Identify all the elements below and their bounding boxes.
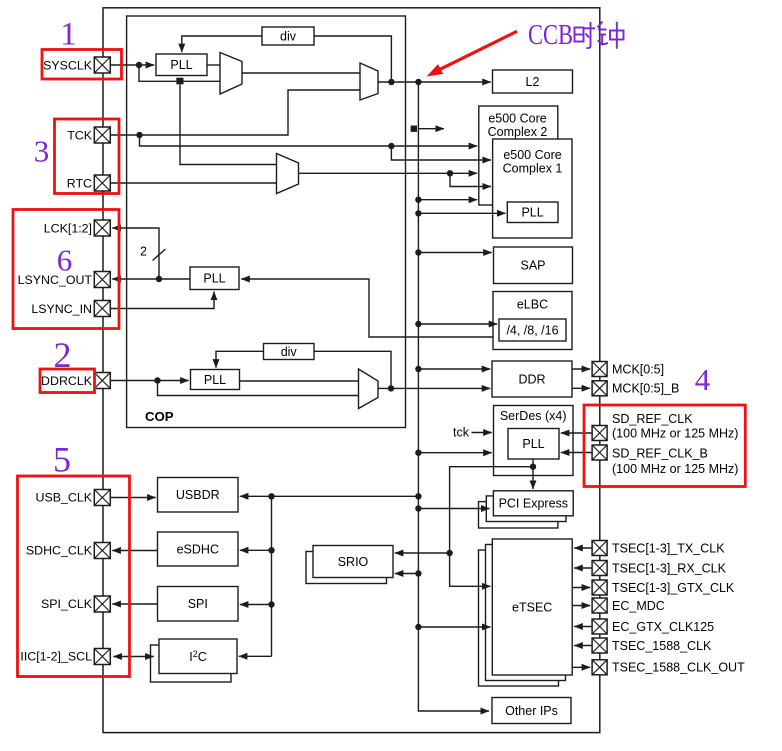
svg-text:PLL: PLL bbox=[203, 272, 225, 286]
pad DDRCLK bbox=[94, 373, 110, 389]
pad SYSCLK bbox=[94, 57, 110, 73]
pad EC_GTX_CLK125 bbox=[592, 619, 607, 634]
node SRIO/eTSEC junction bbox=[446, 550, 452, 556]
wire RTC pad to mux M3 lower input bbox=[111, 182, 277, 184]
wire SD_REF_CLK pad to SerDes PLL bbox=[561, 432, 592, 434]
wire tck to SerDes bbox=[472, 432, 492, 434]
block e500 Core Complex 1 bbox=[493, 139, 572, 238]
pad TSEC[1-3]_RX_CLK bbox=[592, 561, 607, 576]
svg-text:PLL: PLL bbox=[522, 437, 544, 451]
svg-text:CCB: CCB bbox=[528, 20, 573, 51]
svg-text:e500 Core: e500 Core bbox=[503, 148, 561, 162]
block USBDR bbox=[158, 478, 239, 513]
svg-text:Complex 2: Complex 2 bbox=[488, 125, 548, 139]
wire square tap to mux M1 lower input bbox=[184, 80, 221, 82]
svg-text:LSYNC_IN: LSYNC_IN bbox=[31, 302, 92, 316]
svg-text:TSEC[1-3]_GTX_CLK: TSEC[1-3]_GTX_CLK bbox=[612, 581, 735, 595]
wire square tap down to mux M3 upper input bbox=[180, 84, 277, 164]
wire bus to SRIO bbox=[395, 573, 419, 575]
annotation box 3 (TCK/RTC) bbox=[55, 119, 120, 194]
block eTSEC (stacked) bbox=[479, 550, 559, 686]
wire arrow into USBDR right edge bbox=[240, 495, 272, 497]
wire bus to USBDR bbox=[272, 495, 419, 497]
wire DDR to MCK[0:5] pad bbox=[572, 368, 590, 370]
node LSYNC_OUT junction bbox=[156, 276, 162, 282]
svg-text:EC_MDC: EC_MDC bbox=[612, 599, 665, 613]
node bus to eTSEC bbox=[415, 624, 421, 630]
PLL U2 (LBC PLL) bbox=[190, 267, 239, 290]
pad MCK[0:5] bbox=[592, 362, 607, 377]
wire div feedback: CCB node up to div right bbox=[314, 36, 391, 82]
annotation box 4 (SD_REF_CLK) bbox=[584, 405, 745, 487]
pad TSEC_1588_CLK bbox=[592, 638, 607, 653]
pad SD_REF_CLK bbox=[592, 426, 607, 441]
wire eLBC feedback to PLL U2 bbox=[241, 279, 493, 337]
node bus to core PLL bbox=[415, 210, 421, 216]
svg-text:IIC[1-2]_SCL: IIC[1-2]_SCL bbox=[20, 650, 92, 664]
wire bus to eLBC divider bbox=[418, 323, 497, 325]
tap square S1 bbox=[176, 78, 183, 85]
block SRIO (stacked) bbox=[306, 552, 387, 584]
svg-text:DDRCLK: DDRCLK bbox=[41, 374, 93, 388]
block SAP bbox=[494, 247, 573, 284]
node bus to Complex2 bbox=[415, 197, 421, 203]
wire bus to e500 Core Complex 2 lower bbox=[418, 199, 477, 201]
annotation box 1 (SYSCLK) bbox=[42, 50, 122, 80]
divider /4,/8,/16 bbox=[499, 319, 566, 341]
wire div out to PLL U1 top (feedback) bbox=[182, 36, 262, 52]
svg-text:TSEC[1-3]_TX_CLK: TSEC[1-3]_TX_CLK bbox=[612, 541, 725, 555]
bus width slash bbox=[153, 249, 166, 261]
wire distribution down to eSDHC bbox=[271, 496, 273, 550]
node SYSCLK junction bbox=[136, 62, 142, 68]
svg-text:/4, /8, /16: /4, /8, /16 bbox=[506, 323, 558, 337]
svg-text:LSYNC_OUT: LSYNC_OUT bbox=[18, 273, 93, 287]
wire arrow into eSDHC right edge bbox=[240, 549, 272, 551]
svg-text:SAP: SAP bbox=[520, 259, 545, 273]
svg-text:COP: COP bbox=[145, 409, 174, 424]
node SPI junction bbox=[268, 601, 274, 607]
wire SYSCLK bypass to square tap bbox=[139, 65, 176, 81]
wire SerDes PLL out down to PCI Express bbox=[532, 459, 534, 489]
pad TSEC_1588_CLK_OUT bbox=[592, 660, 607, 675]
block L2 bbox=[493, 70, 573, 93]
annotation glyph shi (时) bbox=[575, 22, 596, 48]
annotation box 5 (USB/SDHC/SPI/IIC) bbox=[18, 476, 130, 677]
svg-text:LCK[1:2]: LCK[1:2] bbox=[44, 222, 92, 236]
wire DDRCLK pad to PLL U3 bbox=[111, 380, 189, 382]
pad TSEC[1-3]_TX_CLK bbox=[592, 541, 607, 556]
pad TCK bbox=[94, 127, 110, 143]
PLL U4 (core complex PLL) bbox=[507, 202, 558, 223]
wire PLL U1 out to mux M1 upper input bbox=[207, 64, 220, 66]
block DDR bbox=[492, 361, 572, 397]
svg-text:3: 3 bbox=[34, 134, 50, 169]
svg-text:PLL: PLL bbox=[170, 58, 192, 72]
pad IIC[1-2]_SCL bbox=[94, 649, 110, 665]
wire SPI to SPI_CLK pad bbox=[112, 603, 157, 605]
node CCB clock bbox=[415, 79, 421, 85]
mux M1 (PLL bypass mux) bbox=[220, 53, 242, 95]
svg-text:I2C: I2C bbox=[189, 649, 207, 664]
wire distribution down to SPI bbox=[271, 550, 273, 604]
wire TCK pad to mux M2 lower input bbox=[111, 90, 361, 135]
wire eTSEC to EC_MDC pad bbox=[572, 605, 590, 607]
svg-text:SYSCLK: SYSCLK bbox=[43, 59, 93, 73]
wire LSYNC_IN pad to PLL U2 bottom bbox=[111, 292, 215, 309]
svg-text:EC_GTX_CLK125: EC_GTX_CLK125 bbox=[612, 620, 714, 634]
wire eTSEC to TSEC[1-3]_GTX_CLK pad bbox=[572, 587, 590, 589]
block Other IPs bbox=[492, 698, 571, 724]
wire PLL U2 out to LSYNC_OUT pad bbox=[112, 278, 190, 280]
block SerDes (x4) bbox=[494, 406, 574, 476]
wire distribution down to I2C bbox=[271, 605, 273, 657]
wire branch to LCK pad bbox=[112, 228, 159, 279]
svg-text:6: 6 bbox=[57, 243, 73, 278]
pad LSYNC_IN bbox=[94, 301, 110, 317]
node DDRCLK junction bbox=[154, 377, 160, 383]
node bus to USB line bbox=[415, 493, 421, 499]
PLL U3 (DDR PLL) bbox=[191, 370, 240, 390]
svg-text:TSEC_1588_CLK_OUT: TSEC_1588_CLK_OUT bbox=[612, 661, 745, 675]
wire USB_CLK pad to USBDR bbox=[111, 497, 156, 499]
wire bus to DDR bbox=[418, 368, 490, 370]
wire TCK branch to e500 Core Complex 2 bbox=[140, 135, 478, 146]
node mux M4 output bbox=[388, 385, 394, 391]
wire DDR to MCK[0:5]_B pad bbox=[572, 387, 590, 389]
pad MCK[0:5]_B bbox=[592, 381, 607, 396]
wire PLL U3 out to mux M4 upper input bbox=[240, 380, 359, 382]
COP block outline bbox=[127, 16, 406, 428]
wire bus to eTSEC bbox=[418, 626, 490, 628]
wire arrow into SPI right edge bbox=[240, 604, 272, 606]
wire TSEC[1-3]_TX_CLK pad to eTSEC bbox=[574, 547, 592, 549]
wire I2C to IIC pad (bidirectional) bbox=[113, 656, 153, 658]
wire CCB vertical bus bbox=[418, 82, 489, 711]
svg-text:RTC: RTC bbox=[67, 176, 92, 190]
svg-text:L2: L2 bbox=[526, 75, 540, 89]
wire SYSCLK pad to PLL U1 bbox=[111, 64, 155, 66]
svg-text:eLBC: eLBC bbox=[517, 298, 548, 312]
wire TSEC[1-3]_RX_CLK pad to eTSEC bbox=[574, 567, 592, 569]
wire TCK branch to e500 Core Complex 1 bbox=[391, 146, 491, 160]
svg-text:TCK: TCK bbox=[67, 129, 93, 143]
annotation box 6 (LCK/LSYNC) bbox=[13, 210, 119, 329]
svg-text:(100 MHz or 125 MHz): (100 MHz or 125 MHz) bbox=[612, 427, 738, 441]
svg-text:SerDes (x4): SerDes (x4) bbox=[500, 409, 567, 423]
wire mux M3 out to e500 Core Complex 2 bbox=[299, 172, 478, 174]
svg-text:tck: tck bbox=[453, 425, 470, 439]
tap square S2 on CCB bus bbox=[411, 126, 417, 132]
node mux M2 output bbox=[388, 79, 394, 85]
node bus to SerDes bbox=[415, 450, 421, 456]
node bus to DDR bbox=[415, 366, 421, 372]
wire bus to core complex PLL U4 bbox=[418, 212, 505, 214]
svg-text:TSEC_1588_CLK: TSEC_1588_CLK bbox=[612, 639, 712, 653]
node bus to SRIO bbox=[415, 570, 421, 576]
pad SD_REF_CLK_B bbox=[592, 445, 607, 460]
pad LSYNC_OUT bbox=[94, 272, 110, 288]
svg-text:1: 1 bbox=[60, 17, 77, 53]
svg-text:TSEC[1-3]_RX_CLK: TSEC[1-3]_RX_CLK bbox=[612, 561, 727, 575]
mux M3 (TCK/RTC mux) bbox=[277, 154, 299, 194]
block eLBC bbox=[493, 292, 572, 350]
node bus to PCI Express bbox=[415, 505, 421, 511]
PLL U5 (SerDes PLL) bbox=[508, 429, 559, 460]
wire bus to SAP bbox=[418, 252, 491, 254]
wire CCB bus tap arrow bbox=[418, 128, 444, 130]
svg-text:Other IPs: Other IPs bbox=[505, 704, 558, 718]
svg-text:PLL: PLL bbox=[521, 206, 543, 220]
wire eTSEC to TSEC_1588_CLK_OUT pad bbox=[572, 666, 590, 668]
wire mux M4 out to DDR bbox=[378, 387, 490, 389]
pad USB_CLK bbox=[94, 490, 110, 506]
block eSDHC bbox=[158, 532, 239, 566]
svg-text:MCK[0:5]_B: MCK[0:5]_B bbox=[612, 382, 679, 396]
wire div2 out to PLL U3 top (feedback) bbox=[216, 351, 264, 367]
svg-text:SD_REF_CLK: SD_REF_CLK bbox=[612, 412, 693, 426]
wire mux M2 out to L2 (CCB clock) bbox=[378, 81, 491, 83]
svg-text:div: div bbox=[280, 29, 297, 43]
wire TSEC_1588_CLK pad to eTSEC bbox=[574, 645, 592, 647]
svg-text:PLL: PLL bbox=[204, 373, 226, 387]
wire mux M1 out to mux M2 upper input bbox=[242, 72, 360, 74]
svg-text:SPI: SPI bbox=[188, 597, 208, 611]
svg-text:2: 2 bbox=[140, 245, 147, 259]
svg-text:eTSEC: eTSEC bbox=[512, 601, 552, 615]
div divider (DDR) bbox=[264, 344, 315, 360]
svg-text:USBDR: USBDR bbox=[176, 488, 220, 502]
svg-text:MCK[0:5]: MCK[0:5] bbox=[612, 362, 664, 376]
wire mux M3 branch to e500 Core Complex 1 bbox=[450, 173, 491, 186]
wire div2 feedback from mux M4 node bbox=[314, 351, 391, 388]
block SPI bbox=[158, 587, 239, 622]
div divider (top) bbox=[262, 27, 314, 45]
svg-text:eSDHC: eSDHC bbox=[177, 542, 219, 556]
block I2C (stacked) bbox=[151, 645, 232, 682]
svg-text:SPI_CLK: SPI_CLK bbox=[41, 597, 93, 611]
chip outer boundary bbox=[103, 8, 600, 733]
wire bus to SerDes bbox=[418, 452, 491, 454]
svg-text:(100 MHz or 125 MHz): (100 MHz or 125 MHz) bbox=[612, 462, 738, 476]
node SerDes PLL output bbox=[530, 464, 536, 470]
svg-text:USB_CLK: USB_CLK bbox=[36, 491, 93, 505]
wire SerDes PLL out to SRIO bbox=[395, 467, 533, 553]
pad RTC bbox=[94, 175, 110, 191]
node TCK junction bbox=[136, 132, 142, 138]
svg-text:SDHC_CLK: SDHC_CLK bbox=[26, 544, 93, 558]
mux M2 (CCB clock mux) bbox=[360, 63, 378, 100]
node USBDR junction bbox=[268, 493, 274, 499]
svg-text:e500 Core: e500 Core bbox=[488, 112, 546, 126]
svg-text:5: 5 bbox=[53, 440, 71, 480]
svg-text:SD_REF_CLK_B: SD_REF_CLK_B bbox=[612, 446, 708, 460]
node eSDHC junction bbox=[268, 547, 274, 553]
node bus to SAP bbox=[415, 249, 421, 255]
pad LCK[1:2] bbox=[94, 220, 110, 236]
wire arrow into I2C right edge bbox=[239, 655, 272, 657]
pad SDHC_CLK bbox=[94, 543, 110, 559]
pad SPI_CLK bbox=[94, 596, 110, 612]
pad EC_MDC bbox=[592, 598, 607, 613]
svg-text:DDR: DDR bbox=[518, 372, 545, 386]
wire bus to PCI Express bbox=[418, 508, 489, 510]
node TCK branch junction bbox=[388, 143, 394, 149]
wire eSDHC to SDHC_CLK pad bbox=[112, 550, 157, 552]
block e500 Core Complex 2 bbox=[479, 106, 558, 205]
annotation glyph zhong (钟) bbox=[598, 22, 624, 49]
wire EC_GTX_CLK125 pad to eTSEC bbox=[574, 626, 592, 628]
annotation red arrow to CCB node bbox=[440, 31, 517, 69]
wire SD_REF_CLK_B pad to SerDes PLL bbox=[561, 452, 592, 454]
annotation box 2 (DDRCLK) bbox=[40, 369, 95, 393]
svg-text:SRIO: SRIO bbox=[338, 555, 369, 569]
mux M4 (DDR clock mux) bbox=[359, 369, 379, 409]
svg-text:div: div bbox=[281, 345, 298, 359]
wire DDRCLK bypass to mux M4 lower input bbox=[158, 381, 359, 396]
svg-text:PCI Express: PCI Express bbox=[499, 497, 568, 511]
PLL U1 (system PLL) bbox=[156, 54, 207, 76]
node mux M3 branch junction bbox=[447, 170, 453, 176]
svg-text:Complex 1: Complex 1 bbox=[503, 162, 563, 176]
block PCI Express (stacked) bbox=[479, 502, 558, 528]
node bus to eLBC bbox=[415, 321, 421, 327]
pad TSEC[1-3]_GTX_CLK bbox=[592, 580, 607, 595]
svg-text:4: 4 bbox=[695, 362, 711, 397]
wire SerDes PLL out to eTSEC bbox=[450, 553, 491, 586]
